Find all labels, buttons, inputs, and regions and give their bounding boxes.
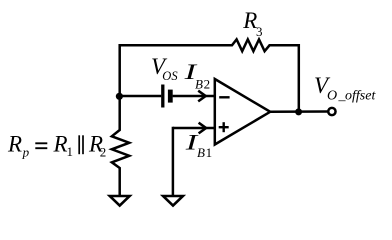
svg-text:2: 2 — [100, 145, 107, 160]
svg-text:p: p — [22, 145, 30, 160]
svg-text:OS: OS — [162, 69, 178, 83]
svg-text:1: 1 — [67, 144, 74, 159]
svg-text:2: 2 — [204, 77, 211, 92]
svg-text:B: B — [195, 77, 203, 92]
svg-text:3: 3 — [256, 24, 263, 39]
svg-text:R: R — [53, 132, 68, 157]
svg-text:1: 1 — [206, 145, 213, 160]
svg-text:R: R — [7, 132, 22, 157]
svg-text:offset: offset — [345, 88, 376, 103]
svg-text:O: O — [327, 88, 337, 103]
svg-text:R: R — [242, 8, 257, 33]
svg-text:B: B — [197, 145, 205, 160]
